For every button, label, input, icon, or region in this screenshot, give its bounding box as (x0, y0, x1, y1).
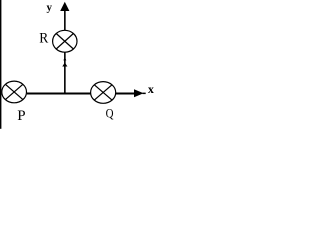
current-direction arrowhead on y-axis wire (63, 57, 66, 60)
x-axis arrowhead (134, 89, 144, 97)
wire y-axis upper segment (arrow to R) (64, 9, 66, 30)
wire y-axis lower segment (R to origin) (64, 52, 66, 94)
lamp/current symbol R (circle with X) (53, 30, 77, 52)
svg-text:R: R (39, 31, 48, 47)
y-axis arrowhead (60, 2, 69, 11)
svg-text:Q: Q (106, 105, 114, 120)
svg-text:P: P (17, 108, 25, 124)
wire x-axis segment Q to arrowhead (116, 92, 136, 94)
svg-text:y: y (47, 1, 53, 13)
lamp/current symbol Q (circle with X) (91, 82, 116, 104)
left border line (0, 0, 1, 129)
wire x-axis segment P to Q (27, 92, 91, 94)
x-axis arrow tip nub (143, 92, 146, 94)
svg-text:x: x (148, 82, 154, 96)
lamp/current symbol P (circle with X) (2, 81, 27, 103)
